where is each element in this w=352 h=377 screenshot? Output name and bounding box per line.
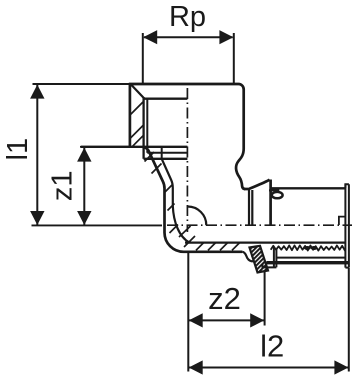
hatch bottom wall xyxy=(220,243,228,251)
sleeve bottom wall band xyxy=(267,261,349,264)
hatch bottom wall xyxy=(196,243,204,251)
dimension line l2 xyxy=(189,367,348,369)
window slot line xyxy=(269,189,279,191)
arrowhead l2 left xyxy=(189,360,203,374)
shoulder line C xyxy=(144,158,188,160)
groove before bead xyxy=(242,252,255,261)
extension line Rp right xyxy=(233,33,235,84)
dimension line l1 xyxy=(36,85,38,225)
arrowhead z1 bottom xyxy=(77,211,91,225)
quarter arc bore xyxy=(188,206,207,225)
sleeve top edge xyxy=(271,187,346,189)
liner tube end visible in sleeve mouth xyxy=(339,217,345,225)
arrowhead l1 top xyxy=(30,85,44,99)
thread bore line outer xyxy=(142,97,144,159)
hatch corner band xyxy=(170,225,179,234)
outer taper and lower corner xyxy=(143,147,243,252)
hatch taper band xyxy=(165,184,173,192)
svg-text:l2: l2 xyxy=(260,329,284,364)
thread bore line inner xyxy=(146,99,148,153)
outlet top edge xyxy=(244,188,250,191)
sleeve end ring xyxy=(345,184,349,188)
svg-text:Rp: Rp xyxy=(169,1,206,33)
body left edge xyxy=(129,84,132,147)
thread chamfer xyxy=(131,85,144,98)
svg-text:z2: z2 xyxy=(208,281,241,316)
counterbore vertical xyxy=(161,147,163,159)
dimension line z2 xyxy=(189,319,264,321)
dimension line Rp xyxy=(144,36,233,38)
sleeve inner bottom line xyxy=(277,257,345,259)
extension line z2 right xyxy=(264,263,266,326)
hatch taper band xyxy=(152,164,162,174)
inner wall line (bore of branch) xyxy=(185,242,345,244)
hatch taper band xyxy=(145,152,155,162)
hatch bottom wall xyxy=(208,243,216,251)
arrowhead l2 right xyxy=(334,360,348,374)
svg-text:l1: l1 xyxy=(2,138,34,161)
hatch corner band xyxy=(184,236,195,247)
extension line l1/z1 bottom xyxy=(32,224,163,226)
hatch bottom wall xyxy=(232,243,240,251)
press indicator dots xyxy=(304,246,311,250)
arrowhead l1 bottom xyxy=(30,211,44,225)
body right edge and neck S-curve xyxy=(236,89,245,189)
arrowhead Rp left xyxy=(143,30,157,44)
arrowhead z1 top xyxy=(77,148,91,162)
arrowhead Rp right xyxy=(219,30,233,44)
thread bottom line xyxy=(144,98,188,100)
centerline horizontal xyxy=(167,224,352,226)
collar bottom section pair xyxy=(273,248,275,268)
window ellipse xyxy=(272,192,283,198)
centerline vertical xyxy=(186,88,188,232)
collar right edge xyxy=(269,180,272,226)
svg-text:z1: z1 xyxy=(47,170,79,201)
hatch xyxy=(132,135,144,147)
extension line l1 top xyxy=(33,83,131,85)
inner taper boundary xyxy=(162,159,190,243)
dimension line z1 xyxy=(83,148,85,225)
collar left edge pair xyxy=(248,189,250,225)
extension line l2 right xyxy=(348,268,350,372)
shelf line A xyxy=(81,146,187,148)
body top face xyxy=(129,84,244,89)
shoulder line B xyxy=(147,152,187,154)
hatch corner band xyxy=(168,204,175,211)
extension line z1 top (merges with body shelf line) xyxy=(80,146,131,148)
extension line z2/l2 left xyxy=(187,252,189,372)
arrowhead z2 right xyxy=(250,313,264,327)
extension line Rp left xyxy=(142,33,144,84)
hatch xyxy=(130,125,144,139)
hatch corner band xyxy=(179,226,191,237)
collar bottom foot xyxy=(263,264,277,268)
arrowhead z2 left xyxy=(189,313,203,327)
hatch xyxy=(130,101,144,115)
collar slanted top xyxy=(249,180,269,189)
serration teeth xyxy=(271,245,346,250)
bead hatched section xyxy=(250,246,269,273)
